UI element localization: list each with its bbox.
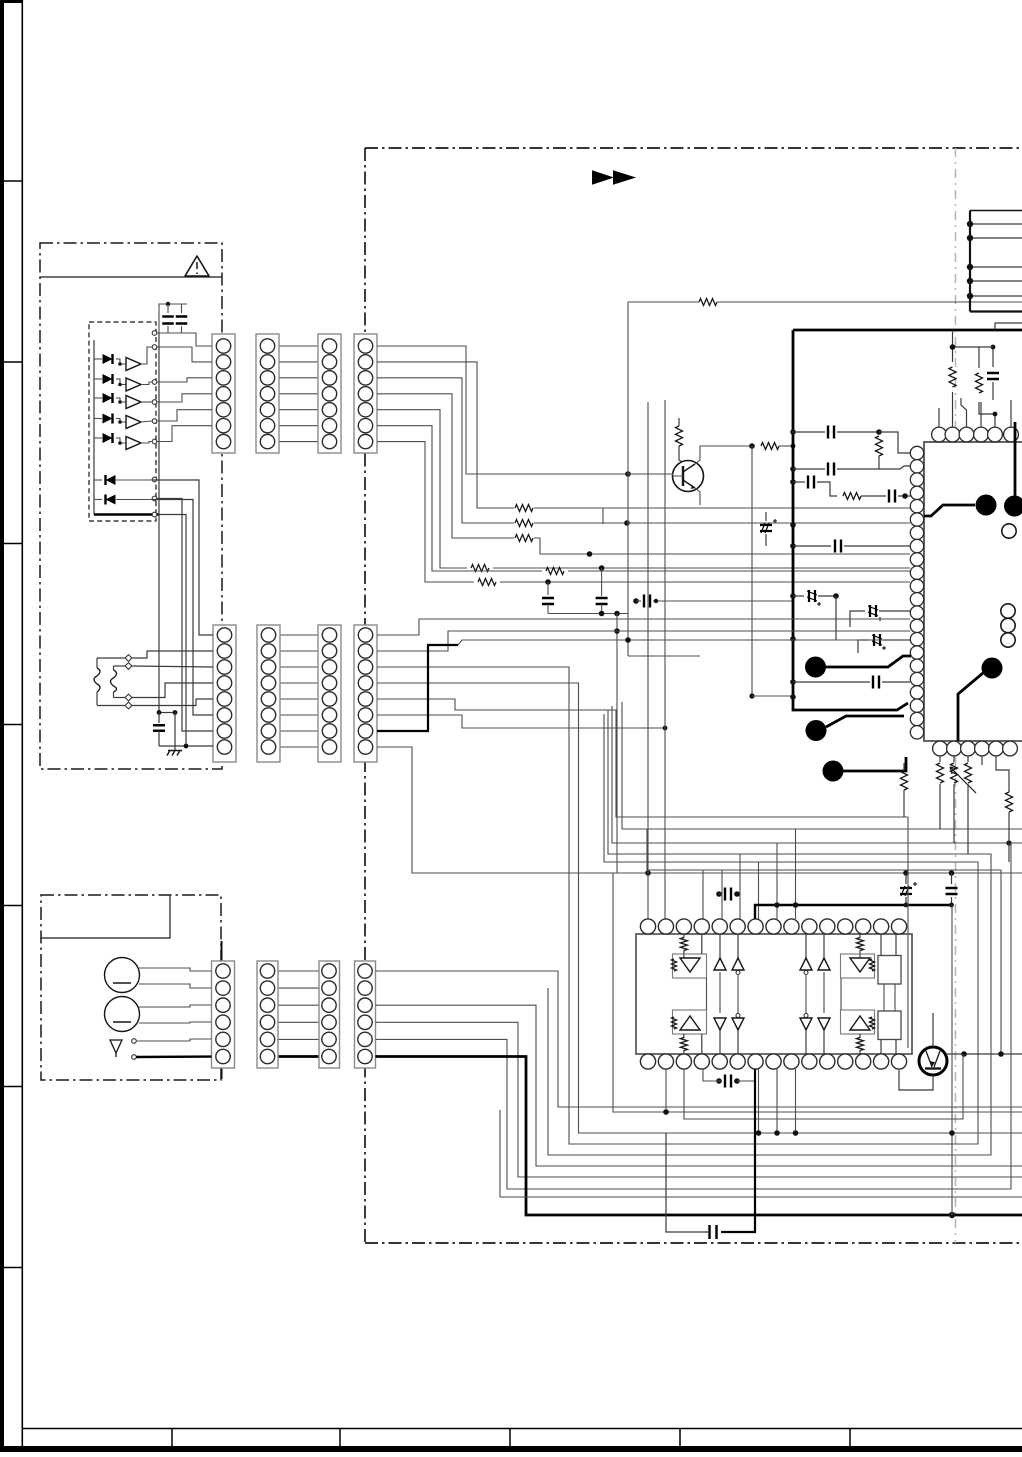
junction on rail y639 [790, 636, 796, 642]
IC1 top pin 6 [1004, 427, 1019, 442]
IC2 bottom pin 15 [891, 1054, 906, 1069]
connector CN101 pin 4 [216, 387, 230, 401]
connector CN102 [256, 334, 279, 453]
wire antenna 3 (to CN105 pin3) [114, 665, 126, 667]
wire Q7 (thick) [377, 645, 458, 731]
connector CN106 pin 4 [261, 676, 275, 690]
capacitor C103 [158, 713, 160, 724]
IC2 bottom pin 2 [658, 1054, 673, 1069]
vertical trunk x628 [627, 302, 629, 656]
IC2 driver box TR [841, 954, 875, 978]
capacitor C101 [167, 304, 169, 313]
connector CN107 pin 5 [322, 692, 336, 706]
connector CN105 pin 1 [217, 628, 231, 642]
IC1 bottom pin 4 [975, 741, 990, 756]
IC2 top pin 14 [873, 919, 888, 934]
bus drop x758.5 [758, 862, 760, 919]
junction on rail y432 [790, 429, 796, 435]
buffer U101 [126, 358, 141, 371]
front panel block outline [40, 243, 222, 769]
connector CN108 [354, 625, 377, 762]
wire R3 [376, 1005, 1022, 1166]
connector CN105 pin 7 [217, 724, 231, 738]
connector CN104 pin 4 [358, 387, 372, 401]
bus drop x722 [721, 870, 723, 919]
long resistor line y302 (R207) [628, 301, 699, 303]
node circle 5 on key block edge [152, 419, 157, 424]
connector CN104 pin 6 [358, 418, 372, 432]
IC2 bottom pin 7 [748, 1054, 763, 1069]
capacitor C209 [793, 545, 831, 547]
wire SP1- [139, 984, 212, 988]
IC1 left pin 21 [910, 712, 923, 725]
IC2 res R301 [683, 934, 685, 938]
main board outline top edge [365, 147, 1022, 149]
node circle 2 on key block edge [152, 345, 157, 350]
wire cap tie [548, 613, 628, 615]
bus drop x740 [739, 854, 741, 919]
IC2 tri TL2 [737, 934, 739, 958]
wire Q301 collector [932, 1013, 934, 1047]
thick common return wire [94, 513, 159, 515]
capacitor C201 [547, 582, 549, 595]
IC1 left pin 18 [910, 672, 923, 685]
connector CN106 pin 6 [261, 708, 275, 722]
thick power rail top [793, 329, 1022, 332]
wire buffer1 out [141, 347, 152, 364]
connector CN110 pin 4 [260, 1015, 274, 1029]
IC1 top pin 1 [932, 427, 947, 442]
harness wires row1 [279, 345, 318, 347]
connector CN110 pin 5 [260, 1032, 274, 1046]
top-right connector line y224 [970, 223, 1022, 225]
jack node circle 2 [132, 1055, 137, 1060]
wire diode to buffer 5 [118, 438, 126, 443]
node circle 3 on key block edge [152, 380, 157, 385]
wire IC1 pin feeds bottom [996, 756, 1009, 786]
top-right connector block [969, 211, 971, 312]
IC2 res R301b [672, 959, 677, 971]
IC2 driver tri TR [850, 958, 870, 972]
wire C204 chain to IC1 pin1 [879, 432, 910, 453]
node circle 8 on key block edge [152, 496, 157, 501]
sheet border left zone strip [0, 0, 4, 1452]
wire diode to buffer 1 [118, 359, 126, 364]
diode D106 [94, 479, 102, 481]
IC2 driver tri TL [680, 958, 700, 972]
bus line B4 loop [548, 710, 991, 1155]
IC2 bottom pin 3 [676, 1054, 691, 1069]
wire long feed E (to CN105 pin7) [157, 499, 213, 732]
connector CN102 pin 7 [260, 434, 274, 448]
connector CN104 pin 7 [358, 434, 372, 448]
wire antenna 5 (to CN105 pin5) [97, 705, 125, 707]
zone divider L7 [0, 1267, 23, 1269]
node circle 4 on key block edge [152, 400, 157, 405]
resistor R215 [939, 756, 941, 762]
junction on rail y682 [790, 679, 796, 685]
alignment holes column [1001, 604, 1015, 618]
wire Q201 emitter [695, 488, 700, 505]
connector CN104 pin 2 [358, 355, 372, 369]
IC1 top pin 3 [959, 427, 974, 442]
connector CN111 pin 5 [322, 1032, 336, 1046]
warning triangle symbol [185, 256, 209, 276]
electrolytic C212 [858, 640, 869, 653]
IC2 res R302 [859, 934, 861, 938]
wire Q5 [377, 699, 1022, 873]
wire to ground [174, 713, 176, 751]
test pad TP5 [823, 761, 844, 782]
connector CN106 pin 3 [261, 660, 275, 674]
connector CN109 pin 3 [216, 998, 230, 1012]
IC2 top pin 4 [694, 919, 709, 934]
junction on rail y546 [790, 543, 796, 549]
IC2 top pin 12 [838, 919, 853, 934]
vertical x952 [951, 905, 953, 1215]
wire R5 loop via right riser [376, 843, 1012, 1189]
connector CN105 pin 6 [217, 708, 231, 722]
connector CN109 [212, 961, 235, 1068]
connector CN101 [212, 334, 235, 453]
headphone jack J1 [110, 1040, 122, 1053]
IC1 body [924, 442, 1022, 741]
IC2 bottom pin 10 [802, 1054, 817, 1069]
connector CN103 pin 2 [322, 355, 336, 369]
junction on rail y697 [790, 694, 796, 700]
IC1 left pin 8 [910, 539, 923, 552]
test pad TP4 [806, 720, 827, 741]
buffer U104 [126, 416, 141, 429]
wire Q301 emitter [899, 1070, 933, 1090]
connector CN103 pin 4 [322, 387, 336, 401]
resistor R211 [843, 493, 861, 500]
connector CN108 pin 6 [358, 708, 372, 722]
IC2 tri TL1 [719, 934, 721, 958]
connector CN102 pin 1 [260, 339, 274, 353]
wire x752 drop [751, 446, 753, 696]
connector CN101 pin 2 [216, 355, 230, 369]
IC2 bottom pin 9 [784, 1054, 799, 1069]
connector CN107 [318, 625, 341, 762]
IC1 bottom pin 6 [1003, 741, 1018, 756]
IC2 pin4 stub bottom [701, 1034, 703, 1054]
zone divider L4 [0, 724, 23, 726]
connector CN111 pin 1 [322, 964, 336, 978]
IC2 tri BL2 [736, 1014, 740, 1018]
IC2 body [636, 934, 912, 1054]
resistor R216 (trimmer) [953, 756, 955, 762]
wire long feed A [158, 333, 160, 713]
IC2 tri TR1 [805, 934, 807, 958]
connector CN112 pin 4 [358, 1015, 372, 1029]
diode D103 [94, 397, 102, 399]
jack panel label compartment [41, 895, 170, 938]
connector CN109 pin 6 [216, 1049, 230, 1063]
zone divider B1 [171, 1428, 173, 1447]
IC1 left pin 9 [910, 553, 923, 566]
IC2 top pin 10 [802, 919, 817, 934]
wire Q8 [377, 747, 617, 873]
wire SP1+ [139, 968, 212, 971]
bus line B6 [647, 829, 1001, 1054]
connector CN108 pin 5 [358, 692, 372, 706]
IC1 left pin 10 [910, 566, 923, 579]
IC2 top pin 7 [748, 919, 763, 934]
node circle 6 on key block edge [152, 439, 157, 444]
electrolytic C215 [905, 873, 907, 884]
drop x777 [776, 1069, 778, 1133]
connector CN105 [213, 625, 236, 762]
harness wires row3 [278, 970, 320, 972]
IC1 left pin 11 [910, 579, 923, 592]
wire P3 (with R202) [377, 378, 514, 523]
connector CN111 pin 6 [322, 1049, 336, 1063]
connector CN106 pin 1 [261, 628, 275, 642]
wire key node 5 to CN101 [157, 410, 212, 421]
transistor Q201 [673, 461, 704, 492]
wire diode to buffer 2 [118, 379, 126, 385]
IC2 driver tri BR [850, 1016, 870, 1030]
connector CN106 pin 8 [261, 740, 275, 754]
diode D105 [94, 437, 102, 439]
connector CN105 pin 5 [217, 692, 231, 706]
board fold line (gray dash-dot) [955, 148, 957, 1243]
IC2 tri BR2 [818, 1018, 830, 1030]
IC2 pin4 stub [701, 934, 703, 954]
connector CN108 pin 8 [358, 740, 372, 754]
test pad TP1 [924, 505, 975, 516]
capacitor C203 (series) [633, 598, 639, 604]
IC1 left pin 16 [910, 646, 923, 659]
connector CN102 pin 2 [260, 355, 274, 369]
zone divider B4 [679, 1428, 681, 1447]
resistor R214 [903, 763, 905, 770]
capacitor C216 [951, 873, 953, 884]
wire long feed B (diode D106 to CN105 pin1) [152, 480, 213, 635]
bottom line y1197 [500, 1196, 1022, 1198]
wire R210 to IC1 pin2 [879, 466, 910, 469]
IC2 block BR [878, 1011, 901, 1040]
IC1 left pin 13 [910, 606, 923, 619]
bottom line y1112 [613, 873, 1022, 1112]
test pad TP2 [1004, 496, 1022, 517]
thick wire above IC2 [755, 905, 952, 920]
IC2 block TR [878, 956, 901, 985]
connector CN102 pin 6 [260, 418, 274, 432]
IC1 bottom pin 3 [961, 741, 976, 756]
wire P4 (with R203) [377, 394, 514, 538]
IC2 driver box BL [673, 1010, 707, 1034]
IC2 top pin 2 [658, 919, 673, 934]
IC1 top pin 5 [988, 427, 1003, 442]
main board outline bottom edge [365, 1242, 1022, 1244]
wire key node 3 to CN101 [157, 378, 212, 382]
connector CN101 pin 3 [216, 371, 230, 385]
resistor R209 [761, 443, 779, 450]
top-right connector line y267 [970, 266, 1022, 268]
wire key node 4 to CN101 [157, 394, 212, 402]
zone divider L5 [0, 905, 23, 907]
IC1 left pin 5 [910, 500, 923, 513]
connector CN108 pin 1 [358, 628, 372, 642]
connector CN104 pin 3 [358, 371, 372, 385]
long bus wire x648 [647, 402, 649, 873]
capacitor C213 [793, 681, 870, 683]
connector CN101 pin 6 [216, 418, 230, 432]
IC2 bottom pin 11 [820, 1054, 835, 1069]
wire Q6 [377, 715, 665, 728]
connector CN107 pin 6 [322, 708, 336, 722]
wire P7 (with R206) [377, 442, 474, 582]
wire y1119 riser [684, 1054, 963, 1119]
wire SP2+ [139, 1005, 212, 1007]
jack panel solid stubs at connector [221, 941, 223, 961]
wire Q4 [377, 683, 1022, 1133]
IC2 bottom pin 6 [730, 1054, 745, 1069]
antenna node diamonds [125, 655, 132, 662]
wire diode to buffer 4 [118, 419, 126, 423]
connector CN101 pin 7 [216, 434, 230, 448]
IC2 top pin 13 [856, 919, 871, 934]
jack panel block outline [41, 895, 221, 1080]
connector CN103 pin 5 [322, 403, 336, 417]
capacitor C214 [992, 347, 994, 367]
resistor R213 [978, 347, 980, 368]
zone divider B2 [339, 1428, 341, 1447]
IC2 res R303b [672, 1017, 677, 1029]
junction on rail y482 [790, 479, 796, 485]
connector CN107 pin 4 [322, 676, 336, 690]
connector CN102 pin 5 [260, 403, 274, 417]
wire SP2- [139, 1022, 212, 1023]
capacitor C202 [601, 568, 603, 596]
connector CN112 pin 2 [358, 981, 372, 995]
IC1 top pin feeds [938, 408, 940, 427]
connector CN105 pin 2 [217, 644, 231, 658]
branch off power rail top right [995, 323, 1022, 330]
wire buffer2 out [141, 382, 152, 385]
connector CN110 pin 3 [260, 998, 274, 1012]
IC2 tri TR2 [823, 934, 825, 958]
connector CN107 pin 2 [322, 644, 336, 658]
connector CN112 [355, 961, 376, 1068]
capacitor C206 [793, 481, 805, 483]
IC2 block BR feed [880, 1040, 882, 1055]
IC2 block TR feed [880, 934, 882, 956]
bus line B2 [622, 702, 1022, 829]
IC2 top pin 11 [820, 919, 835, 934]
bus line B1 [616, 710, 908, 817]
long bus wire x665 [664, 400, 666, 919]
IC1 left pin 4 [910, 486, 923, 499]
connector CN104 pin 1 [358, 339, 372, 353]
connector CN112 pin 3 [358, 998, 372, 1012]
top-right connector line y296 [970, 295, 1022, 297]
connector CN112 pin 6 [358, 1049, 372, 1063]
top-right connector line y238 [970, 237, 1022, 239]
wire Q301 base drop [907, 817, 909, 1048]
connector CN106 pin 2 [261, 644, 275, 658]
connector CN104 [354, 334, 377, 453]
IC2 driver box TL [673, 954, 707, 978]
wire Q3 loop via right riser [377, 667, 978, 1144]
IC2 bottom pin 12 [838, 1054, 853, 1069]
IC2 res R303 [683, 1034, 685, 1038]
connector CN102 pin 4 [260, 387, 274, 401]
IC1 left pin 2 [910, 460, 923, 473]
main board outline left edge [364, 148, 366, 1243]
wire Q1 [377, 619, 910, 635]
coil L101 [96, 658, 98, 668]
connector CN105 pin 8 [217, 740, 231, 754]
bus line B3 [612, 706, 1022, 843]
connector CN111 pin 2 [322, 981, 336, 995]
IC2 driver tri BL [680, 1016, 700, 1030]
IC2 bottom pin 5 [712, 1054, 727, 1069]
connector CN103 pin 7 [322, 434, 336, 448]
ground symbol [167, 751, 182, 756]
capacitor C217 (series with dots) [716, 891, 722, 897]
bus drop x703 [702, 870, 704, 919]
zone divider B5 [849, 1428, 851, 1447]
wire node row to caps [157, 332, 182, 334]
IC2 top pin 8 [766, 919, 781, 934]
IC2 top pin 9 [784, 919, 799, 934]
diode D102 [94, 378, 102, 380]
jack node circle 1 [132, 1039, 137, 1044]
IC1 left pin 20 [910, 699, 923, 712]
speaker SP1 [105, 958, 140, 993]
connector CN108 pin 7 [358, 724, 372, 738]
buffer U103 [126, 396, 141, 409]
connector CN107 pin 7 [322, 724, 336, 738]
diode D107 [94, 499, 102, 501]
diode D104 [94, 418, 102, 420]
connector CN110 pin 1 [260, 964, 274, 978]
connector CN107 pin 3 [322, 660, 336, 674]
wire R1 [376, 971, 1022, 1107]
wire P3 cont [627, 522, 910, 524]
alignment hole [1002, 524, 1016, 538]
IC1 bottom pin 1 [933, 741, 948, 756]
connector CN111 pin 3 [322, 998, 336, 1012]
IC1 top pin 2 [945, 427, 960, 442]
wire P2 (with R201) [377, 362, 514, 508]
connector CN108 pin 2 [358, 644, 372, 658]
IC2 res R304 [859, 1034, 861, 1038]
drop x796 [795, 1069, 797, 1133]
zone divider L2 [0, 361, 23, 363]
electrolytic C211 [850, 611, 865, 627]
wire key node 2 to CN101 [157, 347, 212, 362]
wire Q301 collector line [947, 1053, 1022, 1055]
harness wires row2 [280, 634, 318, 636]
wire buffer5 out [141, 442, 152, 444]
IC1 bottom pin 2 [947, 741, 962, 756]
connector CN103 pin 1 [322, 339, 336, 353]
IC1 left pin 3 [910, 473, 923, 486]
drop x758 [758, 1069, 760, 1133]
wire key node 6 to CN101 [157, 426, 212, 442]
junction dot right y843 [1006, 840, 1011, 845]
connector CN109 pin 1 [216, 964, 230, 978]
resistor R212 [952, 330, 954, 362]
connector CN102 pin 3 [260, 371, 274, 385]
resistor R208 [678, 418, 680, 426]
IC2 bottom pin 1 [640, 1054, 655, 1069]
wire C103 to CN105 pin8 [159, 745, 213, 747]
